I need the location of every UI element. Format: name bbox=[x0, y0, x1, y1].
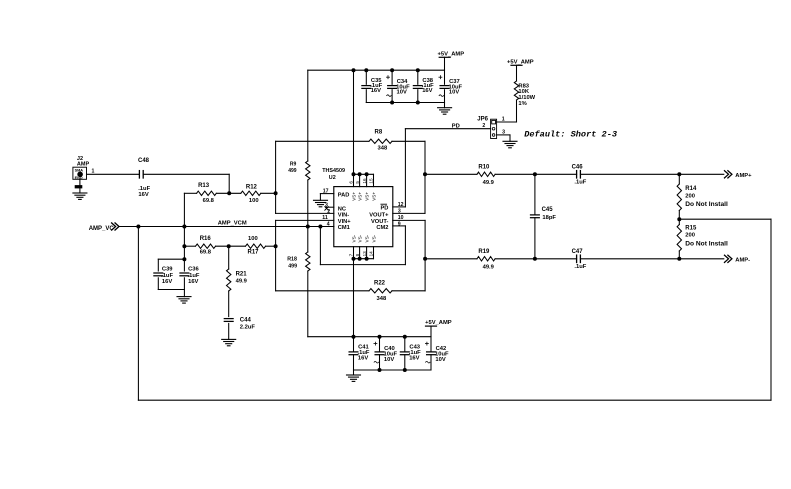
svg-text:16V: 16V bbox=[358, 356, 368, 362]
wire R10 to C46 bbox=[495, 173, 576, 175]
wire PD pin bbox=[393, 206, 406, 208]
junction CM2/VCM bbox=[319, 225, 322, 228]
capacitor C35 bbox=[362, 86, 371, 89]
wire C39 branch top bbox=[158, 258, 184, 260]
label 10uF (C42) bbox=[435, 351, 449, 357]
wire C42 bottom lead bbox=[430, 355, 432, 370]
label 2.2uF (C44) bbox=[240, 324, 256, 330]
junction R21 tap bbox=[227, 245, 230, 248]
wire NC stub bbox=[326, 206, 334, 208]
label 10uF (C40) bbox=[384, 351, 398, 357]
label C34 bbox=[397, 79, 408, 85]
wire R13-R12 junction bbox=[216, 192, 241, 194]
J2 ground stub bbox=[75, 179, 82, 193]
pin name VOUT+ bbox=[369, 213, 389, 219]
label Do Not Install (R14) bbox=[685, 201, 728, 208]
svg-text:100: 100 bbox=[249, 198, 259, 204]
svg-text:R14: R14 bbox=[685, 186, 697, 192]
label 100 (R17) bbox=[248, 236, 258, 242]
label 348 (R8) bbox=[378, 146, 388, 152]
wire PAD pin bbox=[320, 194, 333, 201]
svg-text:16V: 16V bbox=[409, 356, 419, 362]
label C45 bbox=[542, 207, 554, 213]
svg-text:R15: R15 bbox=[685, 226, 697, 232]
wire C47 to AMP- bbox=[580, 258, 723, 260]
rotated pin numbers VS- bbox=[349, 251, 374, 257]
wire C39 top lead bbox=[157, 259, 159, 271]
svg-text:VOUT+: VOUT+ bbox=[369, 213, 389, 219]
wire PD to JP6 bbox=[405, 128, 490, 130]
resistor R19 bbox=[477, 257, 495, 261]
junction +5V bus at C38 bbox=[416, 69, 419, 72]
power +5V_AMP (R83) bbox=[507, 59, 534, 81]
wire R83 to JP6 pin1 bbox=[497, 100, 517, 122]
port AMP- chevron bbox=[725, 255, 732, 262]
junction R14/R15 midpoint bbox=[678, 218, 681, 221]
label R16 bbox=[200, 236, 212, 242]
label .1uF (C48) bbox=[138, 186, 150, 192]
label C37 bbox=[449, 79, 460, 85]
pin number 11 (VIN+) bbox=[322, 215, 328, 221]
wire C44 to ground bbox=[228, 323, 230, 339]
wire C36 to ground bbox=[183, 290, 185, 297]
wire CM2 return bbox=[320, 264, 405, 266]
wire VS+ supply drop bbox=[353, 70, 355, 174]
label THS4509 bbox=[322, 168, 345, 174]
wire C45 bottom lead bbox=[534, 218, 536, 259]
label .1uF (C35) bbox=[370, 83, 382, 89]
junction cap bus at C40 bbox=[378, 335, 381, 338]
label 10V (C34) bbox=[397, 90, 407, 96]
svg-text:15: 15 bbox=[369, 178, 374, 184]
svg-text:AMP_VCM: AMP_VCM bbox=[218, 221, 247, 227]
label C44 bbox=[240, 317, 252, 323]
svg-text:499: 499 bbox=[288, 264, 297, 270]
wire C34 top lead bbox=[391, 70, 393, 84]
label 69.8 (R16) bbox=[200, 250, 212, 256]
resistor R18 bbox=[306, 252, 310, 271]
label JP6 bbox=[477, 116, 488, 122]
svg-text:AMP+: AMP+ bbox=[735, 173, 752, 179]
wire R17 right lead bbox=[266, 245, 276, 247]
svg-text:49.9: 49.9 bbox=[483, 180, 495, 186]
label 1/10W (R83) bbox=[518, 95, 535, 101]
svg-text:5: 5 bbox=[355, 181, 360, 184]
svg-text:PD: PD bbox=[452, 124, 460, 130]
svg-text:14: 14 bbox=[369, 251, 374, 257]
svg-text:6: 6 bbox=[349, 181, 354, 184]
svg-text:VIN-: VIN- bbox=[338, 213, 349, 219]
resistor R17 bbox=[246, 244, 266, 248]
svg-text:16V: 16V bbox=[138, 192, 148, 198]
capacitor C39 bbox=[154, 273, 163, 276]
capacitor C43 bbox=[400, 352, 409, 355]
label Do Not Install (R15) bbox=[685, 240, 728, 247]
label 16V (C38) bbox=[422, 88, 432, 94]
junctions VS- bus bbox=[352, 257, 368, 260]
wire C37 bottom lead bbox=[444, 90, 446, 103]
wire bottom bank ground stub bbox=[353, 370, 355, 375]
svg-text:10V: 10V bbox=[384, 357, 394, 363]
junction bottom bus C43 bbox=[403, 369, 406, 372]
svg-text:16V: 16V bbox=[371, 88, 381, 94]
junction VCM divider bbox=[306, 225, 309, 228]
svg-text:49.9: 49.9 bbox=[483, 264, 495, 270]
label C46 bbox=[572, 164, 584, 170]
junction C45 bottom bbox=[533, 257, 536, 260]
capacitor C48 bbox=[139, 171, 143, 178]
pin name CM2 bbox=[376, 225, 388, 231]
resistor R21 bbox=[227, 269, 231, 291]
label C40 bbox=[384, 346, 395, 352]
svg-text:R8: R8 bbox=[375, 130, 383, 136]
resistor R8 bbox=[369, 139, 392, 143]
svg-text:10V: 10V bbox=[435, 357, 445, 363]
label R18 bbox=[287, 256, 297, 262]
ground (top cap bank) bbox=[438, 108, 452, 115]
svg-text:Do Not Install: Do Not Install bbox=[685, 201, 728, 208]
wire VS- pin bus bbox=[354, 258, 374, 260]
junction AMP_VC rail tap bbox=[137, 225, 140, 228]
svg-text:AMP: AMP bbox=[77, 161, 90, 167]
label U2 bbox=[329, 175, 336, 181]
label C41 bbox=[358, 345, 369, 351]
svg-text:PD: PD bbox=[380, 205, 388, 211]
wire C36 top lead bbox=[183, 259, 185, 271]
wire VIN- pin wire bbox=[276, 212, 334, 214]
ground (J2) bbox=[73, 193, 87, 199]
ground (bottom cap bank) bbox=[347, 375, 361, 381]
label net AMP_VCM bbox=[218, 221, 247, 227]
wire C39 bottom lead bbox=[157, 278, 159, 290]
label C43 bbox=[409, 345, 420, 351]
wire VOUT+ vertical bbox=[424, 141, 426, 213]
wire C45 top lead bbox=[534, 174, 536, 215]
wire C41 top lead bbox=[353, 337, 355, 352]
label 16V (C48) bbox=[138, 192, 148, 198]
resistor R10 bbox=[477, 172, 495, 176]
svg-text:348: 348 bbox=[378, 146, 388, 152]
U2 VS+ pin stubs bbox=[354, 174, 374, 186]
polarity mark (C37) bbox=[439, 95, 443, 97]
svg-text:69.8: 69.8 bbox=[203, 198, 215, 204]
wire C41 bottom lead bbox=[353, 355, 355, 370]
wire VOUT+ pin bbox=[393, 212, 425, 214]
svg-text:VS-: VS- bbox=[372, 234, 377, 242]
junction cap bus at C43 bbox=[403, 335, 406, 338]
resistor R83 bbox=[514, 81, 518, 100]
resistor R15 bbox=[677, 225, 681, 252]
wire top bank bottom bus bbox=[366, 102, 444, 104]
junction +5V bus at C35 bbox=[365, 69, 368, 72]
label 10V (C42) bbox=[435, 357, 445, 363]
wire C35 top lead bbox=[365, 70, 367, 84]
wire VOUT- pin bbox=[393, 219, 425, 221]
svg-text:AMP-: AMP- bbox=[735, 258, 750, 264]
label 18pF (C45) bbox=[542, 215, 556, 221]
junction bottom bus C40 bbox=[378, 369, 381, 372]
label 16V (C35) bbox=[371, 88, 381, 94]
label 49.9 (R21) bbox=[236, 279, 248, 285]
pin number 4 (CM1) bbox=[327, 221, 330, 227]
wire J2 pin1 to C48 bbox=[87, 173, 140, 175]
pin name NC bbox=[338, 207, 346, 213]
svg-text:END: END bbox=[75, 176, 83, 180]
junction VOUT+ tap bbox=[424, 173, 427, 176]
wire rail to R14/R15 midpoint bbox=[679, 218, 771, 220]
wire CM2 vertical bbox=[404, 226, 406, 265]
label 16V (C39) bbox=[162, 279, 172, 285]
svg-text:348: 348 bbox=[377, 296, 387, 302]
wire +5V bus bbox=[308, 69, 445, 71]
svg-text:49.9: 49.9 bbox=[236, 279, 248, 285]
svg-text:THS4509: THS4509 bbox=[322, 168, 345, 174]
junction VCM at x=184 bbox=[183, 225, 186, 228]
label 1% (R83) bbox=[518, 101, 526, 107]
wire R9 to R18 bbox=[307, 180, 309, 252]
power +5V_AMP (top) bbox=[438, 51, 465, 70]
wire C35 bottom lead bbox=[365, 90, 367, 103]
wire C43 top lead bbox=[404, 337, 406, 352]
wire JP6 pin3 to ground bbox=[497, 135, 510, 141]
pin number 2 (VIN-) bbox=[327, 209, 330, 215]
wire CM2 pin bbox=[393, 225, 406, 227]
junction C45 top bbox=[533, 173, 536, 176]
wire node A drop bbox=[228, 174, 230, 193]
pin number 3 (VOUT+) bbox=[398, 208, 401, 214]
wire R16-R17 junction bbox=[216, 245, 246, 247]
polarity + (C34) bbox=[387, 76, 390, 79]
wire R15 bottom lead bbox=[678, 251, 680, 259]
svg-text:200: 200 bbox=[685, 193, 695, 199]
capacitor C34 bbox=[388, 86, 397, 89]
resistor R9 bbox=[306, 161, 310, 180]
resistor R14 bbox=[677, 184, 681, 211]
rotated pin numbers VS+ bbox=[349, 178, 374, 184]
svg-text:1: 1 bbox=[502, 117, 505, 123]
pin number 1 (JP6) bbox=[502, 117, 505, 123]
wire +5V bus to R9 bbox=[307, 70, 309, 161]
label AMP_VC bbox=[89, 226, 115, 232]
label 499 (R18) bbox=[288, 264, 297, 270]
svg-text:.1uF: .1uF bbox=[161, 273, 173, 279]
svg-text:R13: R13 bbox=[198, 183, 210, 189]
svg-text:18pF: 18pF bbox=[542, 215, 556, 221]
connector J2 (SMA AMP input) bbox=[73, 167, 87, 180]
pin number 12 (PD) bbox=[398, 202, 404, 208]
pin number 10 (VOUT-) bbox=[398, 215, 404, 221]
svg-text:2: 2 bbox=[482, 123, 485, 129]
wire VIN+ pin wire bbox=[276, 219, 334, 221]
svg-text:1: 1 bbox=[92, 168, 95, 174]
svg-text:2: 2 bbox=[327, 209, 330, 215]
wire C46 to AMP+ bbox=[580, 173, 723, 175]
pin number 1 of J2 bbox=[92, 168, 95, 174]
svg-text:R21: R21 bbox=[236, 272, 248, 278]
wire VS- cap bus bbox=[308, 336, 431, 338]
label 499 (R9) bbox=[288, 168, 297, 174]
label 49.9 (R19) bbox=[483, 264, 495, 270]
svg-text:16V: 16V bbox=[422, 88, 432, 94]
wire VOUT- to R19 bbox=[425, 258, 477, 260]
svg-text:VS+: VS+ bbox=[365, 192, 370, 201]
junction R16 left bbox=[183, 245, 186, 248]
pin name VIN- bbox=[338, 213, 349, 219]
power +5V_AMP (bottom) bbox=[425, 320, 452, 337]
wire C40 bottom lead bbox=[379, 355, 381, 370]
wire top feedback right bbox=[392, 140, 425, 142]
junction VS+ drop bbox=[352, 69, 355, 72]
label .1uF (C38) bbox=[422, 83, 434, 89]
resistor R16 bbox=[196, 244, 216, 248]
wire C36 bottom lead bbox=[183, 278, 185, 290]
wire left frame vertical bbox=[275, 141, 277, 213]
label .1uF (C43) bbox=[409, 350, 421, 356]
svg-text:16V: 16V bbox=[162, 279, 172, 285]
svg-text:JP6: JP6 bbox=[477, 116, 488, 122]
label 49.9 (R10) bbox=[483, 180, 495, 186]
label 10uF (C37) bbox=[449, 84, 463, 90]
svg-text:R22: R22 bbox=[374, 280, 386, 286]
pin number 17 (PAD) bbox=[323, 189, 329, 195]
svg-text:R19: R19 bbox=[478, 249, 490, 255]
svg-text:7: 7 bbox=[349, 253, 354, 256]
label net PD bbox=[452, 124, 460, 130]
no-connect X on NC pin bbox=[325, 207, 329, 211]
label AMP bbox=[77, 161, 90, 167]
svg-text:C48: C48 bbox=[138, 158, 150, 164]
svg-text:R16: R16 bbox=[200, 236, 212, 242]
wire C48 to node A bbox=[143, 173, 229, 175]
label R21 bbox=[236, 272, 248, 278]
svg-text:+5V_AMP: +5V_AMP bbox=[438, 51, 465, 57]
label 69.8 (R13) bbox=[203, 198, 215, 204]
junction C39 branch bbox=[183, 258, 186, 261]
label C35 bbox=[371, 78, 382, 84]
junction +5V bus at C34 bbox=[391, 69, 394, 72]
label R19 bbox=[478, 249, 490, 255]
svg-text:13: 13 bbox=[362, 251, 367, 257]
jumper JP6 body bbox=[491, 119, 497, 138]
resistor R22 bbox=[369, 289, 392, 293]
svg-text:100: 100 bbox=[248, 236, 258, 242]
svg-text:69.8: 69.8 bbox=[200, 250, 212, 256]
junction node A bbox=[228, 192, 231, 195]
capacitor C37 bbox=[440, 86, 449, 89]
U2 VS- pin stubs bbox=[354, 247, 374, 259]
wire R16 left lead bbox=[184, 245, 195, 247]
label R17 bbox=[248, 250, 260, 256]
svg-text:8: 8 bbox=[355, 253, 360, 256]
wire AMP_VC to CM1 pin bbox=[119, 226, 334, 228]
label R83 bbox=[518, 83, 529, 89]
wire C34 bottom lead bbox=[391, 90, 393, 103]
rotated labels VS+ bbox=[352, 192, 377, 201]
label .1uF (C39) bbox=[161, 273, 173, 279]
pin name PAD bbox=[338, 192, 350, 198]
label .1uF (C46) bbox=[574, 180, 586, 186]
label 16V (C43) bbox=[409, 356, 419, 362]
wire VOUT+ to R10 bbox=[425, 173, 477, 175]
capacitor C44 bbox=[224, 319, 233, 322]
label C38 bbox=[422, 78, 433, 84]
wire C39/C36 bottom join bbox=[158, 289, 184, 291]
svg-text:C44: C44 bbox=[240, 317, 252, 323]
resistor R13 bbox=[197, 191, 217, 195]
label 10V (C37) bbox=[449, 90, 459, 96]
svg-text:1%: 1% bbox=[518, 101, 526, 107]
svg-text:VS-: VS- bbox=[365, 234, 370, 242]
label .1uF (C41) bbox=[358, 350, 370, 356]
svg-text:.1uF: .1uF bbox=[574, 264, 586, 270]
svg-text:PAD: PAD bbox=[338, 192, 350, 198]
svg-text:R12: R12 bbox=[246, 185, 258, 191]
label C47 bbox=[572, 249, 584, 255]
svg-text:SMA: SMA bbox=[75, 169, 84, 173]
svg-text:CM1: CM1 bbox=[338, 225, 350, 231]
label R15 bbox=[685, 226, 697, 232]
wire VOUT- vertical bbox=[424, 220, 426, 290]
pin number 3 (JP6) bbox=[502, 129, 505, 135]
wire VIN+ frame vertical bbox=[275, 220, 277, 290]
wire C43 bottom lead bbox=[404, 355, 406, 370]
rotated labels VS- bbox=[352, 234, 377, 242]
label 10K (R83) bbox=[518, 89, 529, 95]
label 100 (R12) bbox=[249, 198, 259, 204]
junction VS- bus at C41 bbox=[352, 335, 355, 338]
wire bottom bank bottom bus bbox=[354, 369, 432, 371]
svg-text:11: 11 bbox=[322, 215, 328, 221]
svg-text:C36: C36 bbox=[188, 267, 199, 273]
wire bottom feedback right bbox=[392, 290, 425, 292]
wire bottom feedback left bbox=[276, 290, 369, 292]
wire C38 bottom lead bbox=[417, 90, 419, 103]
pin number 2 (JP6) bbox=[482, 123, 485, 129]
capacitor C46 bbox=[577, 171, 581, 178]
label 16V (C41) bbox=[358, 356, 368, 362]
wire R21 to C44 bbox=[228, 291, 230, 317]
wire R13-left down to C36 bbox=[183, 193, 185, 259]
wire R14 top lead bbox=[678, 174, 680, 184]
junction R12/feedback bbox=[274, 192, 277, 195]
svg-text:499: 499 bbox=[288, 168, 297, 174]
label R9 bbox=[290, 162, 297, 168]
svg-text:200: 200 bbox=[685, 233, 695, 239]
junction R14 top bbox=[678, 173, 681, 176]
svg-text:4: 4 bbox=[327, 221, 330, 227]
label 10uF (C34) bbox=[396, 84, 410, 90]
wire C40 top lead bbox=[379, 337, 381, 352]
wire R13 left lead bbox=[184, 192, 196, 194]
svg-text:C39: C39 bbox=[162, 267, 173, 273]
wire C37 top lead bbox=[444, 70, 446, 84]
svg-text:U2: U2 bbox=[329, 175, 336, 181]
capacitor C42 bbox=[427, 352, 436, 355]
wire VS- to cap bus bbox=[353, 259, 355, 337]
capacitor C38 bbox=[413, 86, 422, 89]
wire C42 top lead bbox=[430, 337, 432, 352]
svg-text:AMP_VC: AMP_VC bbox=[89, 226, 115, 232]
wire R19 to C47 bbox=[495, 258, 576, 260]
capacitor C40 bbox=[375, 352, 384, 355]
svg-text:16: 16 bbox=[362, 178, 367, 184]
svg-text:+5V_AMP: +5V_AMP bbox=[425, 320, 452, 326]
label .1uF (C47) bbox=[574, 264, 586, 270]
capacitor C36 bbox=[180, 273, 189, 276]
port AMP_VC input chevron bbox=[112, 223, 119, 230]
svg-text:NC: NC bbox=[338, 207, 346, 213]
port AMP+ chevron bbox=[725, 171, 732, 178]
